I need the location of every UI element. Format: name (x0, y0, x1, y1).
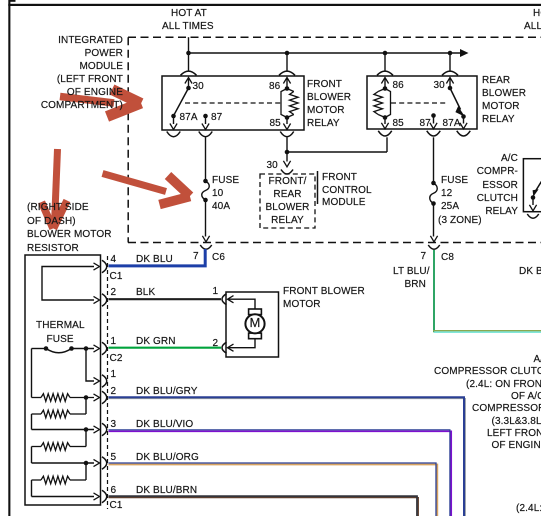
page border frame notch (9, 0, 16, 2)
rear relay node 87A (461, 114, 466, 119)
connector cup below rear relay pin 87A (457, 131, 471, 136)
resistor connector pin 2 shell (102, 294, 107, 307)
label connector C6 pin 7 (193, 251, 199, 263)
wire fuse 12 to connector C8 (433, 204, 435, 237)
label resistor wire DK BLU/VIO (136, 419, 193, 431)
front control module divider bar (317, 171, 319, 204)
label front relay 86 (269, 81, 280, 93)
label fuse F12 rating (441, 201, 459, 213)
label rear relay 87A (443, 118, 461, 130)
node pin5 junction (84, 461, 89, 466)
label fuse F10 name (212, 175, 239, 187)
label resistor pin 3 (111, 419, 117, 431)
label blower motor resistor location line 2 (27, 216, 76, 228)
label front blower motor name line 2 (283, 299, 321, 311)
label blower motor resistor location line 4 (27, 243, 79, 255)
label resistor pin 6 (111, 485, 117, 497)
front relay pin 87A stub (173, 116, 175, 124)
wire DK BLU/BRN (109, 498, 419, 516)
connector cup below front relay pin 85 (280, 132, 294, 137)
connector C6 cup (200, 245, 212, 249)
front relay switch arm 30-87A (174, 88, 189, 116)
label a/c compressor clutch relay line 1 (440, 153, 518, 165)
rear relay switch arm 30-87A (450, 88, 461, 110)
wire DK BLU C6 to blower motor resistor pin 4 (109, 249, 206, 266)
label front relay 30 (193, 81, 204, 93)
label a/c compressor clutch location line 4 (511, 391, 541, 403)
rear relay pin 30 entry (446, 78, 453, 84)
label front control module line 2 (322, 185, 372, 197)
label resistor pin 5 (111, 452, 117, 464)
front control module pin 30 cup (281, 170, 293, 175)
label 2.4L note bottom right (516, 503, 541, 515)
label resistor pin 2 (111, 287, 117, 299)
label resistor wire BLK (136, 287, 155, 299)
label fuse F12 zone (438, 215, 482, 227)
wire fuse 10 to connector C6 (205, 200, 207, 237)
label resistor pin 1 (111, 336, 117, 348)
thermal fuse element (32, 348, 47, 350)
resistor connector pin 5 shell (102, 457, 107, 470)
front relay node 87A (171, 114, 176, 119)
motor pin 1 entry arrow (228, 296, 234, 303)
resistor R2 (41, 410, 70, 418)
label front/rear blower relay line 1 (260, 176, 315, 188)
motor internal wire pin2 (228, 339, 256, 348)
page border frame top (8, 4, 541, 6)
front relay coil (281, 89, 287, 118)
label integrated power module line 5 (0, 87, 123, 99)
wire pin5 junction down to R4 (85, 463, 87, 480)
label connector C8 (441, 252, 454, 264)
node junction 85 bus (285, 150, 290, 155)
resistor R1 (41, 394, 70, 402)
label resistor connector C2 (110, 353, 123, 365)
label a/c compressor clutch relay line 2 (440, 166, 518, 178)
wire R2-left down to pin3 row (31, 414, 33, 430)
front blower motor box (226, 292, 279, 357)
rear relay pin 87A stub (463, 117, 465, 124)
label front blower motor relay name line 3 (307, 105, 345, 117)
rear relay pin 86 entry arrow (381, 78, 388, 84)
wire rear 87 to fuse 12 (433, 137, 435, 183)
label front control module line 3 (322, 197, 366, 209)
connector cup above rear relay pin 86 (377, 71, 393, 75)
a/c compressor clutch relay box (523, 159, 541, 212)
label a/c compressor clutch relay line 4 (440, 193, 518, 205)
wire bus to rear relay 86 (384, 53, 386, 71)
rear relay internal dashed link (391, 102, 447, 104)
label a/c compressor clutch location line 7 (487, 428, 541, 440)
annotation red arrow 3 (to fuse 10) (103, 174, 191, 205)
wire hot feed down from dashed line (188, 37, 190, 53)
connector cup below front relay pin 87 (199, 132, 213, 137)
label resistor pin 2 lower (111, 386, 117, 398)
label front relay 85 (270, 118, 281, 130)
label resistor wire DK BLU/GRY (136, 386, 198, 398)
wire LT BLU/BRN horizontal to right edge (433, 330, 541, 332)
label integrated power module line 1 (0, 35, 123, 47)
label rear blower motor relay name line 3 (482, 101, 520, 113)
front relay node 30 (186, 86, 191, 91)
label fuse F10 rating (212, 201, 230, 213)
label ALL TIMES (left) (162, 21, 214, 33)
front relay node 86 (285, 86, 290, 91)
label front blower motor relay name line 2 (307, 92, 351, 104)
bus arrowhead (460, 49, 469, 57)
label rear relay 30 (434, 80, 445, 92)
wire top bus (189, 52, 463, 54)
a/c relay switch arm (536, 179, 541, 191)
fuse F10 top terminal (203, 179, 208, 184)
resistor internal jumper 4-2 (42, 267, 94, 301)
label resistor pin 4 (111, 254, 117, 266)
label front/rear blower relay line 3 (260, 202, 315, 214)
label connector C8 pin 7 (421, 251, 427, 263)
label integrated power module line 3 (0, 61, 123, 73)
wire to front control module pin 30 (286, 152, 288, 162)
a/c relay pin stub (532, 198, 534, 206)
annotation red arrow 2 (down to resistor) (42, 149, 68, 229)
connector cup below rear relay pin 87 (427, 131, 441, 136)
wire fuse-left vertical (31, 349, 33, 398)
fuse F12 top terminal (431, 181, 436, 186)
connector cup below front relay pin 87A (167, 132, 181, 137)
wire 85 bus horizontal (287, 151, 387, 153)
node junction bus-1 (186, 51, 191, 56)
label integrated power module line 4 (0, 74, 123, 86)
label blower motor resistor location line 1 (27, 202, 89, 214)
rear relay node 30 (448, 86, 453, 91)
label rear blower motor relay name line 1 (482, 75, 510, 87)
motor pin 1 connector shell (222, 294, 227, 305)
label motor pin 1 (213, 286, 219, 298)
front relay pin 87 stub (205, 116, 207, 124)
label a/c compressor clutch location line 1 (534, 354, 541, 366)
fuse F10 bottom terminal (203, 198, 208, 203)
connector cup below rear relay pin 85 (378, 131, 392, 136)
label resistor wire DK BLU/BRN (136, 485, 197, 497)
wire DK BLU/ORG (109, 465, 438, 516)
node junction bus-2 (285, 51, 290, 56)
front relay node 87 (203, 114, 208, 119)
wire pin3 junction down to R3 (85, 430, 87, 447)
wire pin 6 row (32, 496, 95, 498)
label front/rear blower relay line 4 (260, 215, 315, 227)
resistor connector pin 6 shell (102, 490, 107, 503)
label front blower motor relay name line 4 (307, 118, 340, 130)
label thermal fuse line 2 (47, 334, 74, 346)
label rear relay 87 (420, 118, 431, 130)
rear relay coil (385, 89, 391, 118)
rear relay pin 87 stub (433, 116, 435, 124)
label integrated power module line 6 (0, 100, 123, 112)
connector C8 cup (428, 245, 440, 249)
front blower motor relay box (162, 76, 304, 130)
resistor R4 (41, 476, 70, 484)
front relay pin 86 entry arrow (283, 78, 290, 84)
node pin3 junction (84, 427, 89, 432)
resistor connector pin 2b shell (102, 391, 107, 404)
resistor connector pin 1 C2 shell (102, 342, 107, 355)
label a/c compressor clutch location line 8 (492, 440, 541, 452)
front-rear blower relay dashed box (260, 174, 315, 228)
label front/rear blower relay line 2 (260, 189, 315, 201)
label front relay 87A (180, 112, 198, 124)
motor brush top (249, 309, 262, 315)
label resistor connector C1 bottom (110, 500, 123, 512)
rear relay pin 85 stub (384, 118, 386, 125)
label connector C6 (212, 252, 225, 264)
label DK BLU (right edge, clipped) (519, 266, 541, 278)
resistor connector pin 3 shell (102, 423, 107, 436)
page border frame left (8, 0, 10, 516)
label resistor connector C1 top (110, 271, 123, 283)
fuse F10 element (202, 181, 210, 200)
motor pin 2 entry arrow (228, 344, 234, 351)
label front blower motor relay name line 1 (307, 79, 342, 91)
fuse F12 bottom terminal (431, 201, 436, 206)
label resistor pin 1 lower (111, 369, 117, 381)
motor pin 2 connector shell (222, 342, 227, 353)
label LT BLU/ wire (393, 266, 430, 278)
label rear relay 85 (393, 118, 404, 130)
resistor connector pin 1b shell (102, 375, 107, 388)
connector cup below a/c relay (527, 214, 539, 218)
node thermal fuse junction (84, 346, 89, 351)
rear relay node 85 (383, 115, 388, 120)
label fuse F12 name (441, 175, 468, 187)
label resistor wire DK BLU (136, 254, 173, 266)
wire pin 3 row (32, 429, 95, 431)
label fuse F10 number (212, 188, 223, 200)
label a/c compressor clutch location line 5 (472, 403, 541, 415)
label rear blower motor relay name line 2 (482, 88, 526, 100)
rear blower motor relay box (367, 76, 477, 129)
resistor connector pin 4 shell (102, 260, 107, 273)
wire DK GRN motor pin 2 to resistor pin 1 (109, 347, 222, 349)
label a/c compressor clutch location line 3 (466, 379, 541, 391)
front relay pin 30 entry arrow (185, 78, 192, 84)
resistor R3 (41, 443, 70, 451)
label rear blower motor relay name line 4 (482, 114, 515, 126)
label motor pin 2 (213, 338, 219, 350)
label HOT AT (left) (171, 8, 207, 20)
label front relay 87 (211, 112, 222, 124)
wire DK BLU/VIO (109, 431, 452, 516)
motor M1 circle (245, 314, 264, 333)
connector cup above front relay pin 30 (181, 71, 197, 75)
front relay node 85 (285, 115, 290, 120)
label front control module line 1 (322, 172, 357, 184)
front relay internal dashed link (185, 102, 281, 104)
rear relay node 87 (431, 113, 436, 118)
wire R4-left down to pin6 row (31, 480, 33, 497)
label a/c compressor clutch location line 2 (434, 366, 541, 378)
wire DK BLU/GRY (109, 399, 466, 516)
connector cup above rear relay pin 30 (442, 71, 458, 75)
label a/c compressor clutch relay line 3 (440, 180, 518, 192)
label blower motor resistor location line 3 (27, 229, 112, 241)
node R1-pin2 junction (84, 395, 89, 400)
label motor symbol M (250, 317, 261, 329)
blower motor resistor box (25, 255, 101, 505)
label resistor wire DK BLU/ORG (136, 452, 199, 464)
label ALL TIMES (right, clipped) (524, 21, 541, 33)
label a/c compressor clutch relay line 5 (440, 206, 518, 218)
resistor connector dashed line (107, 256, 109, 509)
label a/c compressor clutch location line 6 (492, 416, 541, 428)
wire bus to front relay 30 (188, 53, 190, 71)
wire pin 5 row (32, 462, 95, 464)
label front blower motor name line 1 (283, 286, 365, 298)
node junction bus-4 (448, 51, 453, 56)
wire bus to front relay 86 (286, 53, 288, 71)
wire BLK resistor pin2 to motor pin 1 (109, 298, 222, 300)
rear relay node 86 (383, 86, 388, 91)
label fuse F12 number (441, 188, 452, 200)
annotation red arrow 1 (to relay) (60, 90, 141, 117)
wire pin2 junction down to R2 (85, 398, 87, 415)
motor internal wire pin1 (228, 299, 256, 309)
wire bus to rear relay 30 (449, 53, 451, 71)
wire R3-left down to pin5 row (31, 447, 33, 464)
wire junction to pin 1 lower (86, 349, 94, 382)
label BRN wire (405, 279, 426, 291)
connector cup above front relay pin 86 (279, 71, 295, 75)
label HOT AT (right, clipped) (533, 8, 541, 20)
front relay pin 85 stub (286, 118, 288, 125)
motor brush bottom (249, 333, 262, 339)
wire rear relay 85 down (386, 137, 388, 152)
wire LT BLU/BRN vertical from C8 (433, 250, 435, 332)
node junction bus-3 (383, 51, 388, 56)
fuse F12 element (430, 183, 438, 204)
label integrated power module line 2 (0, 48, 123, 60)
a/c relay node (531, 195, 536, 200)
label thermal fuse line 1 (36, 320, 85, 332)
integrated power module dashed box (128, 36, 541, 38)
label resistor wire DK GRN (136, 336, 176, 348)
wire front relay 85 down (286, 137, 288, 152)
label rear relay 86 (393, 80, 404, 92)
wire front 87 to fuse 10 (205, 137, 207, 181)
label fcm pin 30 (267, 160, 278, 172)
